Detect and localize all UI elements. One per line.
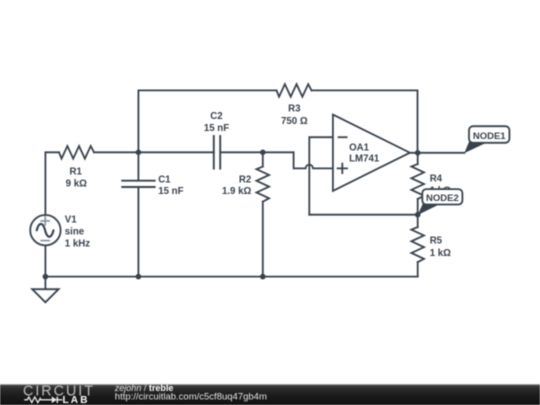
wire [309,137,333,215]
svg-text:1 kΩ: 1 kΩ [430,248,451,259]
svg-text:1.9 kΩ: 1.9 kΩ [222,186,252,197]
svg-text:NODE2: NODE2 [426,193,459,204]
svg-text:R2: R2 [239,174,251,185]
svg-text:C1: C1 [158,175,171,186]
svg-text:9 kΩ: 9 kΩ [66,178,87,189]
svg-text:R4: R4 [430,174,443,185]
wire [410,152,465,154]
node junction dots [43,150,421,280]
svg-text:V1: V1 [65,215,77,226]
wire [312,90,418,152]
capacitor C2 [214,136,294,169]
wire [309,214,417,216]
node C1 bottom junction [136,274,142,280]
node ground junction [43,274,49,280]
svg-text:NODE1: NODE1 [473,131,506,142]
node feedback junction [415,212,421,218]
CircuitLab logo [23,384,95,405]
wire [94,151,214,153]
wire [138,90,276,152]
resistor R5 [411,215,424,277]
ground [32,277,58,303]
svg-text:LAB: LAB [63,395,90,405]
svg-text:LM741: LM741 [349,154,380,165]
capacitor C1 [122,152,155,276]
svg-text:sine: sine [65,227,85,238]
node R1/C1/top-wire junction [136,150,142,156]
resistor R4 [411,153,424,215]
svg-text:OA1: OA1 [349,142,370,153]
node C2/R2 junction [260,150,266,156]
node output junction [415,150,421,156]
svg-text:R3: R3 [288,104,301,115]
wire [294,152,333,168]
wire [45,276,417,278]
source V1 [30,215,60,245]
resistor R2 [257,152,270,276]
resistor R1 [59,146,94,159]
wire [44,245,46,276]
svg-text:http://circuitlab.com/c5cf8uq4: http://circuitlab.com/c5cf8uq47gb4m [115,391,267,402]
wire [45,152,59,215]
svg-text:R5: R5 [430,236,443,247]
svg-text:R1: R1 [70,166,83,177]
svg-text:C2: C2 [210,111,222,122]
svg-text:750 Ω: 750 Ω [281,116,308,127]
node NODE1 flag [464,126,509,153]
resistor R3 [277,84,312,97]
svg-text:1 kHz: 1 kHz [65,239,90,250]
node NODE2 flag [418,189,463,215]
svg-text:15 nF: 15 nF [204,123,229,134]
svg-text:15 nF: 15 nF [158,186,183,197]
footer text [114,383,267,402]
op-amp OA1 [333,115,410,191]
node R2 bottom junction [260,274,266,280]
